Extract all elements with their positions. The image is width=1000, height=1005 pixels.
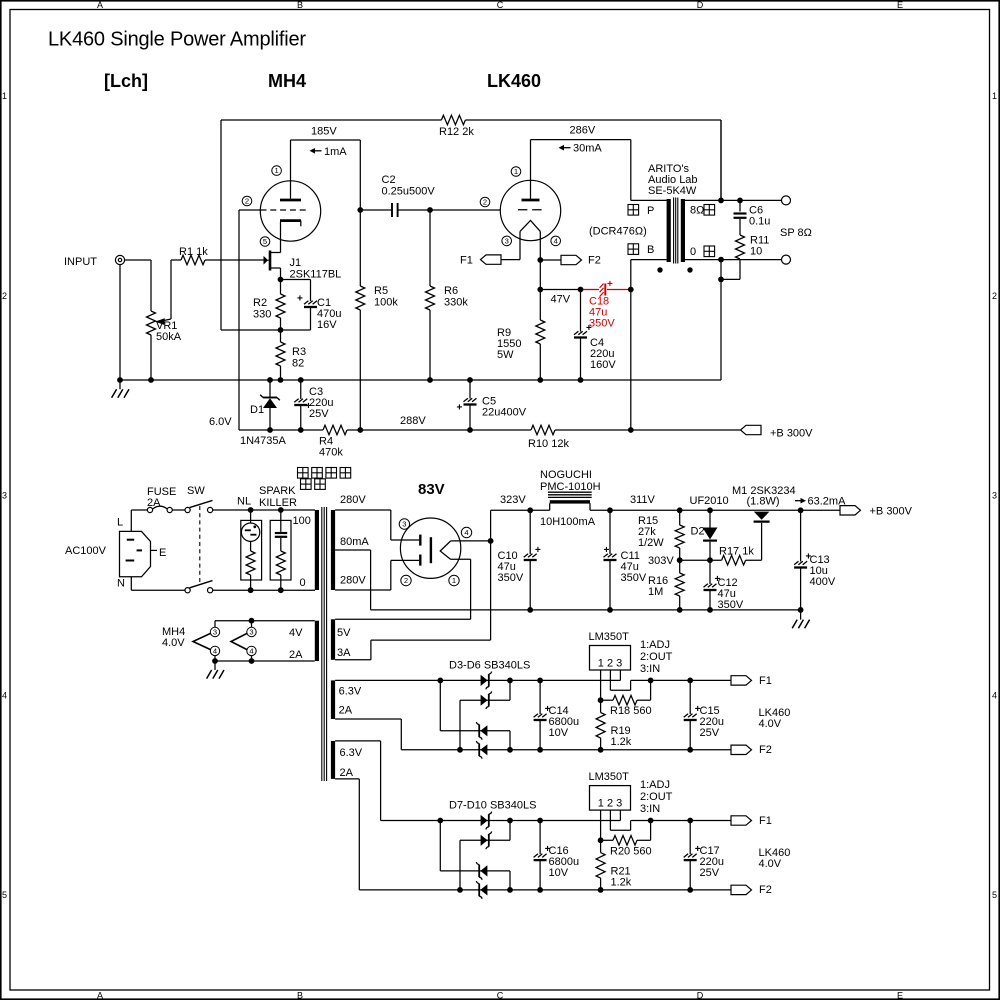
svg-text:5: 5 xyxy=(263,237,267,246)
svg-text:+: + xyxy=(604,545,610,556)
svg-text:16V: 16V xyxy=(317,319,337,331)
svg-text:4: 4 xyxy=(554,237,558,246)
svg-text:1/2W: 1/2W xyxy=(638,537,664,549)
svg-text:100k: 100k xyxy=(374,297,398,309)
svg-text:4: 4 xyxy=(249,647,253,656)
svg-text:A: A xyxy=(97,0,103,10)
svg-text:1 2 3: 1 2 3 xyxy=(598,798,622,810)
svg-text:D: D xyxy=(697,0,704,10)
svg-text:286V: 286V xyxy=(570,125,596,137)
svg-text:4.0V: 4.0V xyxy=(759,858,782,870)
svg-text:4V: 4V xyxy=(289,627,303,639)
svg-text:280V: 280V xyxy=(340,494,366,506)
svg-text:0.25u500V: 0.25u500V xyxy=(382,186,436,198)
svg-text:(DCR476Ω): (DCR476Ω) xyxy=(589,226,647,238)
svg-text:UF2010: UF2010 xyxy=(690,495,729,507)
svg-text:F2: F2 xyxy=(759,884,772,896)
svg-text:311V: 311V xyxy=(630,494,656,506)
svg-text:4.0V: 4.0V xyxy=(162,637,185,649)
svg-text:350V: 350V xyxy=(498,572,524,584)
svg-text:3: 3 xyxy=(402,520,406,529)
svg-text:4.0V: 4.0V xyxy=(759,718,782,730)
svg-text:(1.8W): (1.8W) xyxy=(747,496,780,508)
svg-text:4: 4 xyxy=(992,690,997,700)
svg-text:LK460: LK460 xyxy=(487,71,541,91)
svg-text:SW: SW xyxy=(187,485,205,497)
svg-text:R1 1k: R1 1k xyxy=(179,246,208,258)
svg-text:3:IN: 3:IN xyxy=(640,803,660,815)
svg-text:1:ADJ: 1:ADJ xyxy=(640,779,670,791)
svg-text:2: 2 xyxy=(245,197,249,206)
svg-text:5: 5 xyxy=(2,890,7,900)
svg-text:3A: 3A xyxy=(337,647,351,659)
svg-text:0: 0 xyxy=(300,577,306,589)
svg-text:470k: 470k xyxy=(319,447,343,459)
svg-text:3: 3 xyxy=(249,628,253,637)
svg-text:J1: J1 xyxy=(290,257,302,269)
svg-text:2:OUT: 2:OUT xyxy=(640,651,673,663)
svg-text:N: N xyxy=(117,578,125,590)
svg-text:AC100V: AC100V xyxy=(65,545,107,557)
svg-text:R17 1k: R17 1k xyxy=(719,546,754,558)
svg-text:1 2 3: 1 2 3 xyxy=(598,658,622,670)
svg-text:2:OUT: 2:OUT xyxy=(640,791,673,803)
svg-text:LK460 Single Power Amplifier: LK460 Single Power Amplifier xyxy=(48,29,306,51)
svg-text:C: C xyxy=(497,991,504,1000)
svg-text:R3: R3 xyxy=(292,346,306,358)
svg-text:R2: R2 xyxy=(253,297,267,309)
svg-text:R5: R5 xyxy=(374,285,388,297)
svg-text:1N4735A: 1N4735A xyxy=(240,435,287,447)
svg-text:KILLER: KILLER xyxy=(259,497,297,509)
svg-text:25V: 25V xyxy=(700,727,720,739)
svg-text:+: + xyxy=(297,294,303,305)
svg-text:3: 3 xyxy=(2,491,7,501)
svg-text:185V: 185V xyxy=(311,126,337,138)
svg-text:F1: F1 xyxy=(759,815,772,827)
svg-text:R20 560: R20 560 xyxy=(610,845,652,857)
svg-text:B: B xyxy=(297,0,303,10)
svg-text:5W: 5W xyxy=(497,349,514,361)
svg-text:10H100mA: 10H100mA xyxy=(540,516,596,528)
svg-text:+: + xyxy=(535,545,541,556)
svg-text:1: 1 xyxy=(514,167,518,176)
svg-text:10: 10 xyxy=(750,246,762,258)
svg-text:1: 1 xyxy=(274,166,278,175)
svg-text:R6: R6 xyxy=(444,285,458,297)
svg-text:30mA: 30mA xyxy=(573,143,602,155)
svg-text:2SK117BL: 2SK117BL xyxy=(290,269,342,281)
svg-text:350V: 350V xyxy=(589,318,615,330)
svg-text:P: P xyxy=(647,205,654,217)
svg-text:25V: 25V xyxy=(700,867,720,879)
svg-text:2A: 2A xyxy=(339,705,353,717)
svg-text:E: E xyxy=(897,0,903,10)
svg-text:1M: 1M xyxy=(648,586,663,598)
svg-text:10V: 10V xyxy=(549,727,569,739)
svg-text:F1: F1 xyxy=(460,255,473,267)
svg-text:4: 4 xyxy=(213,647,217,656)
svg-text:5: 5 xyxy=(992,890,997,900)
svg-text:LM350T: LM350T xyxy=(589,771,630,783)
svg-text:288V: 288V xyxy=(400,415,426,427)
svg-text:1: 1 xyxy=(2,91,7,101)
svg-text:1: 1 xyxy=(992,91,997,101)
svg-text:3: 3 xyxy=(213,628,217,637)
svg-text:160V: 160V xyxy=(590,359,616,371)
svg-text:SP 8Ω: SP 8Ω xyxy=(780,227,812,239)
svg-text:5V: 5V xyxy=(337,627,351,639)
svg-text:MH4: MH4 xyxy=(268,71,306,91)
svg-text:350V: 350V xyxy=(718,599,744,611)
svg-text:303V: 303V xyxy=(648,555,674,567)
svg-text:+: + xyxy=(607,279,613,290)
svg-text:6.0V: 6.0V xyxy=(209,416,232,428)
svg-text:1.2k: 1.2k xyxy=(611,736,632,748)
svg-text:D7-D10 SB340LS: D7-D10 SB340LS xyxy=(449,800,536,812)
svg-text:1: 1 xyxy=(452,576,456,585)
svg-text:100: 100 xyxy=(293,515,311,527)
svg-text:R10 12k: R10 12k xyxy=(528,438,569,450)
svg-text:3: 3 xyxy=(992,491,997,501)
svg-text:C: C xyxy=(497,0,504,10)
svg-text:B: B xyxy=(647,244,654,256)
svg-text:1:ADJ: 1:ADJ xyxy=(640,639,670,651)
svg-text:4: 4 xyxy=(2,690,7,700)
svg-text:8Ω: 8Ω xyxy=(690,205,704,217)
svg-text:4: 4 xyxy=(464,528,468,537)
svg-text:3: 3 xyxy=(505,237,509,246)
svg-text:80mA: 80mA xyxy=(340,536,369,548)
svg-text:R18 560: R18 560 xyxy=(610,705,652,717)
svg-text:+B 300V: +B 300V xyxy=(770,428,813,440)
svg-text:280V: 280V xyxy=(340,575,366,587)
svg-text:330k: 330k xyxy=(444,297,468,309)
svg-text:+: + xyxy=(457,403,463,414)
svg-text:0: 0 xyxy=(690,246,696,258)
svg-text:LM350T: LM350T xyxy=(589,631,630,643)
svg-text:F2: F2 xyxy=(588,255,601,267)
svg-text:E: E xyxy=(897,991,903,1000)
svg-text:D: D xyxy=(697,991,704,1000)
svg-text:PMC-1010H: PMC-1010H xyxy=(540,481,601,493)
svg-text:NL: NL xyxy=(237,496,251,508)
svg-text:SE-5K4W: SE-5K4W xyxy=(648,185,697,197)
svg-text:6.3V: 6.3V xyxy=(340,747,363,759)
svg-text:SPARK: SPARK xyxy=(259,485,296,497)
svg-text:D1: D1 xyxy=(250,404,264,416)
svg-text:2: 2 xyxy=(483,198,487,207)
svg-text:3:IN: 3:IN xyxy=(640,663,660,675)
svg-text:F2: F2 xyxy=(759,744,772,756)
svg-text:B: B xyxy=(297,991,303,1000)
svg-text:D3-D6 SB340LS: D3-D6 SB340LS xyxy=(449,660,530,672)
svg-text:A: A xyxy=(97,991,103,1000)
svg-text:350V: 350V xyxy=(621,572,647,584)
svg-text:[Lch]: [Lch] xyxy=(104,71,148,91)
svg-text:25V: 25V xyxy=(309,408,329,420)
svg-text:50kA: 50kA xyxy=(156,331,182,343)
svg-text:10V: 10V xyxy=(549,867,569,879)
svg-text:1mA: 1mA xyxy=(324,146,347,158)
svg-text:F1: F1 xyxy=(759,675,772,687)
svg-text:L: L xyxy=(117,517,123,529)
svg-text:1.2k: 1.2k xyxy=(611,876,632,888)
svg-text:2A: 2A xyxy=(289,649,303,661)
svg-text:NOGUCHI: NOGUCHI xyxy=(540,469,592,481)
svg-text:82: 82 xyxy=(292,358,304,370)
svg-text:2A: 2A xyxy=(340,767,354,779)
svg-text:6.3V: 6.3V xyxy=(339,686,362,698)
svg-text:E: E xyxy=(159,547,166,559)
svg-text:323V: 323V xyxy=(500,494,526,506)
svg-text:2: 2 xyxy=(2,291,7,301)
svg-text:2: 2 xyxy=(992,291,997,301)
svg-text:+B 300V: +B 300V xyxy=(870,506,913,518)
svg-text:R12 2k: R12 2k xyxy=(439,126,474,138)
svg-text:22u400V: 22u400V xyxy=(482,407,527,419)
svg-text:2A: 2A xyxy=(147,497,161,509)
svg-text:83V: 83V xyxy=(418,481,445,498)
svg-text:0.1u: 0.1u xyxy=(749,216,770,228)
svg-text:D2: D2 xyxy=(691,526,705,538)
svg-text:2: 2 xyxy=(404,576,408,585)
svg-text:400V: 400V xyxy=(810,576,836,588)
svg-text:C2: C2 xyxy=(382,174,396,186)
svg-text:47V: 47V xyxy=(551,294,571,306)
svg-text:INPUT: INPUT xyxy=(64,256,97,268)
svg-text:330: 330 xyxy=(253,309,271,321)
